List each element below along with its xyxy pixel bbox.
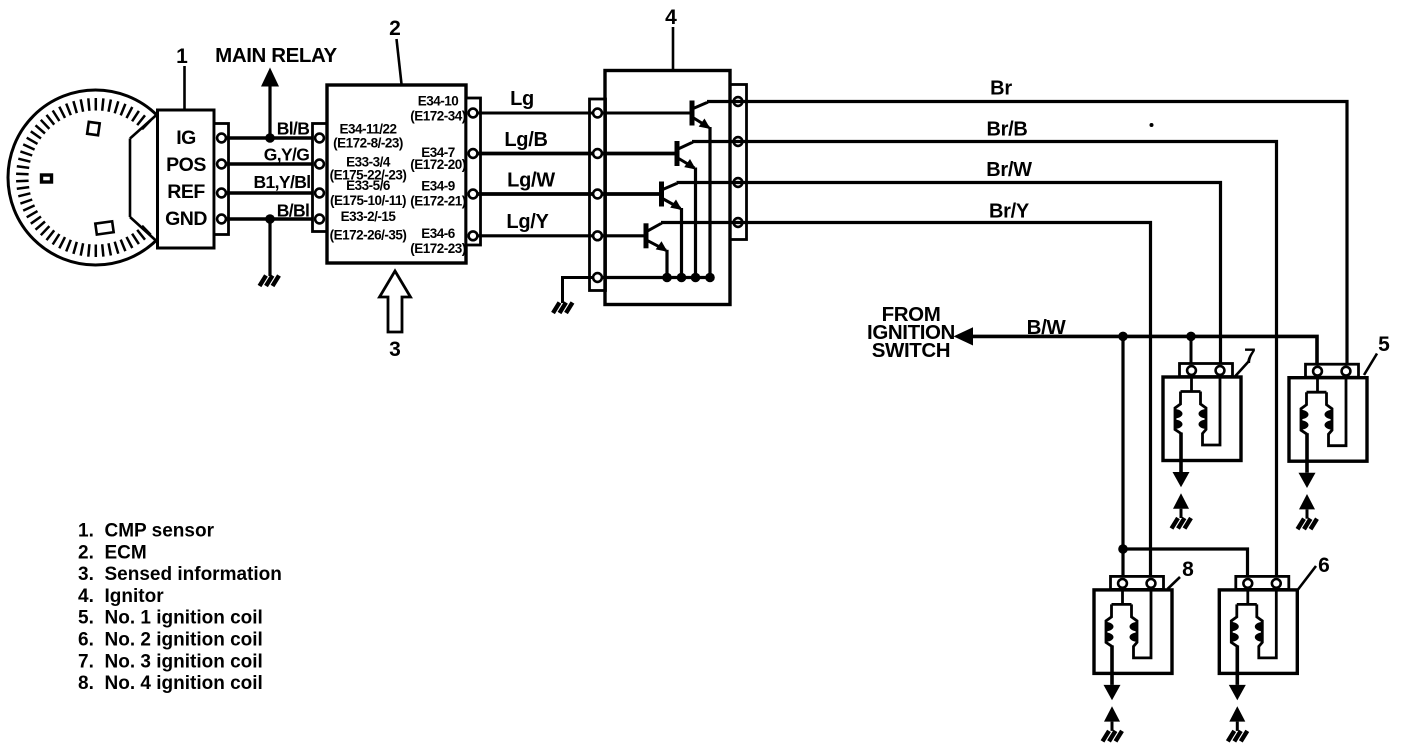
label 7 leader bbox=[1235, 361, 1250, 377]
svg-text:B1,Y/Bl: B1,Y/Bl bbox=[253, 172, 310, 192]
transistor Q4 emitter drop wire bbox=[665, 250, 668, 278]
transistor Q4 base bar bbox=[644, 223, 649, 248]
wire Br/Y bbox=[661, 223, 1151, 581]
svg-text:No. 2 ignition coil: No. 2 ignition coil bbox=[105, 630, 263, 651]
wire Br/W bbox=[677, 183, 1221, 368]
svg-text:3.: 3. bbox=[78, 564, 94, 585]
svg-text:5: 5 bbox=[1378, 333, 1390, 356]
svg-text:B/W: B/W bbox=[1027, 316, 1067, 339]
wire B/W from ignition switch bbox=[972, 336, 1317, 368]
svg-text:POS: POS bbox=[166, 154, 206, 176]
CMP sensor (item 1) toothed rotor ring bbox=[8, 90, 183, 265]
sensor pins bbox=[217, 134, 226, 224]
svg-text:Lg/Y: Lg/Y bbox=[506, 211, 549, 233]
transistor Q3 emitter arrowhead bbox=[670, 200, 682, 211]
ignition coil 5 (No. 1 cylinder) bbox=[1289, 364, 1367, 529]
arrow to ignition switch bbox=[954, 327, 974, 345]
label 1 leader bbox=[183, 66, 186, 109]
svg-text:(E172-23): (E172-23) bbox=[410, 241, 466, 256]
ignitor left pins bbox=[593, 109, 602, 282]
ignitor right pins bbox=[734, 97, 743, 227]
transistor Q1 collector bbox=[692, 102, 707, 110]
svg-text:7: 7 bbox=[1244, 345, 1256, 368]
transistor Q2 emitter bbox=[677, 158, 695, 169]
transistor Q3 collector bbox=[662, 183, 677, 191]
sensor body outline bbox=[130, 114, 158, 242]
wire Br/B bbox=[692, 142, 1277, 581]
rotor slot bottom bbox=[95, 221, 113, 234]
transistor Q4 emitter arrowhead bbox=[656, 241, 668, 252]
svg-text:Lg/W: Lg/W bbox=[507, 170, 555, 192]
ECM (item 2) left connector strip bbox=[313, 124, 328, 232]
svg-text:2: 2 bbox=[389, 17, 401, 40]
MAIN RELAY arrow bbox=[261, 68, 279, 87]
svg-text:(E172-26/-35): (E172-26/-35) bbox=[330, 228, 407, 243]
svg-text:Bl/B: Bl/B bbox=[277, 119, 310, 139]
svg-text:Br/W: Br/W bbox=[986, 159, 1032, 181]
wire G,Y/G (POS) bbox=[222, 162, 320, 166]
svg-text:B/Bl: B/Bl bbox=[277, 201, 310, 221]
svg-text:(E175-10/-11): (E175-10/-11) bbox=[330, 193, 406, 208]
junction on B/Bl wire bbox=[265, 214, 275, 224]
transistor Q1 base bar bbox=[690, 101, 695, 126]
label 5 leader bbox=[1364, 354, 1377, 376]
svg-text:ECM: ECM bbox=[105, 542, 147, 563]
label 2 leader bbox=[397, 39, 402, 84]
svg-text:Ignitor: Ignitor bbox=[105, 586, 165, 607]
svg-text:Br/Y: Br/Y bbox=[989, 201, 1030, 223]
svg-text:(E172-8/-23): (E172-8/-23) bbox=[333, 136, 403, 151]
transistor Q3 emitter drop wire bbox=[680, 208, 683, 278]
ignitor right connector strip bbox=[730, 85, 747, 240]
junction on lower B/W rail bbox=[1118, 544, 1128, 554]
svg-text:6: 6 bbox=[1318, 554, 1330, 577]
wire B/Bl (GND) bbox=[222, 217, 320, 221]
svg-text:GND: GND bbox=[165, 208, 207, 230]
junction on Bl/B wire bbox=[265, 133, 275, 143]
ECM box bbox=[327, 85, 466, 263]
ignition coil 7 (No. 3 cylinder) bbox=[1163, 364, 1241, 529]
wire Lg/Y bbox=[473, 234, 646, 237]
transistor Q4 collector bbox=[646, 223, 661, 232]
legend list bbox=[78, 521, 282, 695]
svg-text:E34-11/22: E34-11/22 bbox=[339, 122, 396, 137]
transistor Q3 emitter bbox=[662, 198, 681, 209]
Ignitor (item 4) box bbox=[605, 71, 730, 305]
transistor Q1 emitter bbox=[692, 117, 709, 128]
ignitor left connector strip bbox=[590, 99, 606, 291]
ground (ignitor) bbox=[553, 303, 573, 314]
ECM pin name texts bbox=[330, 93, 466, 256]
wire Lg/B bbox=[473, 152, 677, 156]
svg-text:MAIN RELAY: MAIN RELAY bbox=[215, 44, 337, 67]
svg-text:8: 8 bbox=[1182, 558, 1194, 581]
label 8 leader bbox=[1168, 577, 1181, 589]
svg-text:E34-10: E34-10 bbox=[418, 93, 459, 108]
ECM right connector strip bbox=[466, 98, 481, 245]
wire Lg/W bbox=[473, 192, 662, 196]
svg-text:IG: IG bbox=[176, 127, 196, 149]
transistor Q1 emitter arrowhead bbox=[699, 119, 711, 130]
svg-text:Br: Br bbox=[990, 78, 1012, 100]
svg-text:7.: 7. bbox=[78, 651, 94, 672]
svg-text:SWITCH: SWITCH bbox=[872, 339, 950, 362]
svg-text:No. 3 ignition coil: No. 3 ignition coil bbox=[105, 651, 263, 672]
transistor Q2 base bar bbox=[675, 141, 680, 166]
rail junction at 695.5 bbox=[691, 273, 701, 283]
svg-text:5.: 5. bbox=[78, 608, 94, 629]
wire and component labels bbox=[176, 6, 1390, 581]
transistor Q2 collector bbox=[677, 142, 692, 150]
ignition coil 8 (No. 4 cylinder) bbox=[1094, 576, 1172, 741]
wire B/W stub to No.3 coil bbox=[1190, 336, 1193, 367]
svg-text:2.: 2. bbox=[78, 542, 94, 563]
svg-text:E34-6: E34-6 bbox=[421, 226, 456, 241]
label 6 leader bbox=[1298, 566, 1316, 590]
svg-text:E33-5/6: E33-5/6 bbox=[346, 178, 391, 193]
MAIN RELAY feed wire bbox=[268, 86, 271, 139]
junction B/W to No.3 coil bbox=[1186, 332, 1196, 342]
svg-text:Sensed information: Sensed information bbox=[105, 564, 282, 585]
wire lower B/W rail to No.2 coil bbox=[1123, 549, 1248, 580]
svg-text:Lg: Lg bbox=[510, 88, 534, 110]
svg-text:(E172-34): (E172-34) bbox=[410, 108, 466, 123]
Sensed information arrow (item 3) bbox=[380, 271, 411, 332]
transistor Q3 base bar bbox=[659, 182, 664, 207]
svg-text:4: 4 bbox=[665, 6, 677, 29]
rail junction at 667 bbox=[662, 273, 672, 283]
rotor slot top bbox=[87, 122, 100, 135]
svg-text:3: 3 bbox=[389, 338, 401, 361]
svg-text:(E172-20): (E172-20) bbox=[410, 157, 466, 172]
svg-text:8.: 8. bbox=[78, 673, 94, 694]
rotor slot left bbox=[42, 175, 52, 182]
transistor Q2 emitter drop wire bbox=[694, 168, 697, 278]
wire Lg bbox=[473, 112, 692, 115]
svg-text:G,Y/G: G,Y/G bbox=[264, 145, 310, 165]
transistor Q2 emitter arrowhead bbox=[684, 159, 696, 170]
svg-text:E34-9: E34-9 bbox=[421, 179, 455, 194]
junction B/W to No.4/No.2 coils bbox=[1118, 332, 1128, 342]
transistor Q1 emitter drop wire bbox=[708, 127, 711, 278]
svg-text:CMP sensor: CMP sensor bbox=[105, 521, 215, 542]
ground (CMP sensor) bbox=[260, 276, 280, 287]
CMP sensor terminal box IG POS REF GND bbox=[158, 110, 215, 248]
ignitor emitter common rail bbox=[598, 276, 711, 279]
svg-text:1.: 1. bbox=[78, 521, 94, 542]
wire Br bbox=[707, 102, 1347, 369]
label 4 leader bbox=[672, 27, 675, 70]
svg-text:(E172-21): (E172-21) bbox=[410, 193, 466, 208]
wire B/W down branch bbox=[1121, 336, 1124, 580]
svg-text:No. 1 ignition coil: No. 1 ignition coil bbox=[105, 608, 263, 629]
svg-text:E33-2/-15: E33-2/-15 bbox=[341, 209, 397, 224]
svg-text:1: 1 bbox=[176, 45, 188, 68]
rail junction at 681.5 bbox=[677, 273, 687, 283]
svg-text:No. 4 ignition coil: No. 4 ignition coil bbox=[105, 673, 263, 694]
wire B1,Y/Bl (REF) bbox=[222, 191, 320, 195]
svg-text:Lg/B: Lg/B bbox=[504, 129, 547, 151]
wire Bl/B (IG) bbox=[222, 136, 320, 140]
ECM left pins bbox=[315, 134, 324, 224]
ignition coil 6 (No. 2 cylinder) bbox=[1219, 576, 1297, 741]
svg-text:4.: 4. bbox=[78, 586, 94, 607]
ECM right pins bbox=[469, 109, 478, 241]
printing speck bbox=[1150, 123, 1154, 127]
ignitor ground wire bbox=[563, 278, 595, 304]
svg-text:Br/B: Br/B bbox=[986, 119, 1027, 141]
transistor Q4 emitter bbox=[646, 240, 666, 251]
sensor connector strip bbox=[214, 124, 229, 235]
svg-text:6.: 6. bbox=[78, 630, 94, 651]
ground wire from B/Bl bbox=[268, 219, 271, 276]
svg-text:REF: REF bbox=[167, 181, 205, 203]
rail junction at 710 bbox=[705, 273, 715, 283]
